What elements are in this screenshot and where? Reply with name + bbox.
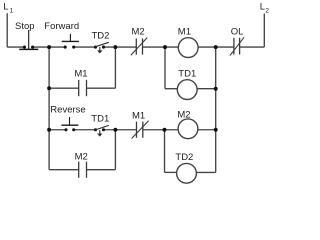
svg-text:M2: M2 — [177, 110, 190, 121]
svg-text:OL: OL — [231, 26, 244, 37]
svg-text:Reverse: Reverse — [50, 104, 85, 115]
svg-text:TD2: TD2 — [175, 152, 193, 163]
svg-text:TD1: TD1 — [178, 68, 196, 79]
svg-text:Stop: Stop — [15, 21, 35, 32]
svg-text:M2: M2 — [132, 26, 145, 37]
svg-text:M2: M2 — [75, 151, 88, 162]
svg-text:M1: M1 — [74, 69, 87, 80]
svg-text:TD2: TD2 — [92, 30, 110, 41]
svg-text:Forward: Forward — [44, 21, 79, 32]
svg-text:TD1: TD1 — [91, 113, 109, 124]
svg-text:M1: M1 — [178, 26, 191, 37]
svg-text:M1: M1 — [132, 110, 145, 121]
